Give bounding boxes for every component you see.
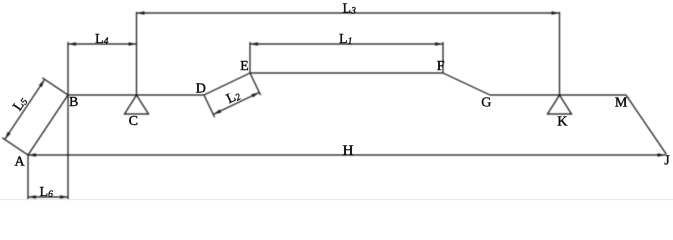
svg-text:C: C [129,114,138,129]
member F-G (inclined bar) [443,73,490,95]
faint page rule at bottom [0,199,673,201]
dimension L5: extension line at A [2,138,28,155]
dimension L5: arrow at A end [5,132,11,140]
dimension L5: dimension line [5,79,45,139]
dimension L2: arrow at D end [213,109,221,114]
dimension L3: arrow left [137,11,145,15]
dimension L1: arrow right [435,42,443,46]
dimension L1: dimension line [250,43,443,45]
dimension L3: extension line at K [559,12,561,95]
dimension L4: extension line through B down to L6 [67,42,69,200]
dimension L3: extension line at C [136,12,138,95]
dimension L4: dimension line [68,43,137,45]
member E-F (top beam) [250,72,443,74]
svg-text:M: M [615,96,628,111]
member G-M (right beam) [490,94,626,96]
dimension L2: arrow at E end [251,92,259,97]
member B-D (left beam) [68,94,204,96]
dimension L2: extension line at E [250,73,261,95]
svg-text:G: G [481,96,491,111]
dimension H: arrow at A [28,153,36,157]
svg-text:B: B [69,95,78,110]
dimension H: arrow at J [658,153,666,157]
dimension L2: extension line at D [204,95,215,117]
dimension L2: dimension line [213,92,259,114]
svg-text:A: A [15,155,26,170]
svg-text:K: K [557,114,567,129]
dimension L4: arrow left [68,42,76,46]
member A-B (inclined bar) [28,95,68,155]
svg-text:H: H [343,143,354,159]
label L5 [10,94,30,114]
svg-text:F: F [437,59,445,74]
dimension L6: arrow right [60,195,68,199]
dimension L5: arrow at B end [39,79,45,87]
member M-J (inclined bar) [626,95,667,155]
dimension L1: extension line at F [442,42,444,73]
support C (pin triangle) [125,95,149,114]
svg-text:J: J [664,154,670,169]
dimension L6: extension line below A [27,155,29,200]
support K (pin triangle) [548,95,572,114]
dimension L6: dimension line [28,196,68,198]
svg-text:D: D [196,82,206,97]
dimension H: dimension line A to J [28,154,666,156]
dimension L3: dimension line [137,12,560,14]
label L2 [224,88,243,107]
dimension L1: arrow left [250,42,258,46]
dimension L3: arrow right [552,11,560,15]
dimension L5: extension line at B [42,78,68,95]
dimension L6: arrow left [28,195,36,199]
member D-E (inclined bar) [204,73,250,95]
svg-text:E: E [240,59,249,74]
dimension L4: arrow right [129,42,137,46]
dimension L1: extension line at E [249,42,251,73]
